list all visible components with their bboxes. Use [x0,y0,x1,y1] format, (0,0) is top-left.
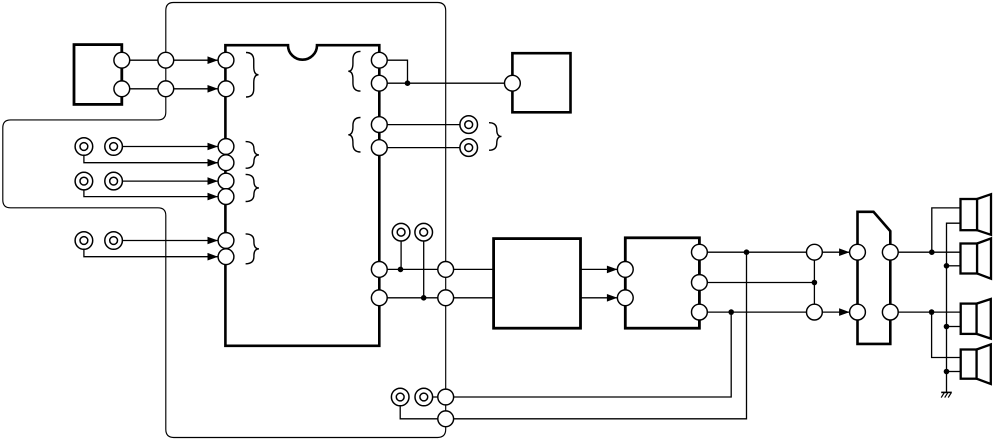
wire [379,268,493,270]
wire [122,59,218,61]
pin IC left 4 [218,155,234,171]
pin P2 unit [114,81,130,97]
jack J2 (RCA) [105,138,123,156]
arrowhead 8 [208,253,219,261]
pin IC left 8 [218,249,234,265]
pin boundary left 1 [158,52,174,68]
jack J3 (RCA) [75,172,93,190]
pin IC left 2 [218,81,234,97]
chassis outline (main unit boundary with left bulge) [3,3,446,438]
wire [424,396,446,398]
wire [581,268,618,270]
brace jacks out [489,123,502,151]
pin selector out 1 [882,244,898,260]
amplifier block A2 [625,238,699,328]
pin IC left 1 [218,52,234,68]
pin amp1 in 1 [617,262,633,278]
junction dot 6 [812,280,818,286]
wire [379,147,468,149]
wire [813,252,815,312]
jack J1 (RCA) [75,138,93,156]
pin boundary right 4 [438,411,454,427]
speaker SP1 [961,194,992,235]
wire [947,223,961,392]
jack J11 (RCA) [391,388,409,406]
junction dot 10 [944,324,950,330]
arrowhead 7 [208,237,219,245]
pin IC right 6 [371,290,387,306]
wire [947,326,961,328]
wire [114,180,218,182]
junction dot 2 [398,267,404,273]
wire [932,208,961,252]
pin P1 unit [114,52,130,68]
wire [699,311,849,313]
wire [699,282,814,284]
wire [890,251,960,253]
pin amp2 out 2 [692,275,708,291]
brace pins 5-6 [246,174,259,201]
wire [446,312,732,397]
pin boundary right 1 [438,262,454,278]
arrowhead 12 [839,308,850,316]
arrowhead 9 [607,266,618,274]
wire [84,147,218,163]
wire [114,240,218,242]
wire [947,265,961,267]
pin IC right 5 [371,262,387,278]
brace right pins 3-4 [348,118,360,153]
jack J4 (RCA) [105,172,123,190]
speaker SP3 [961,299,991,339]
ground [941,392,952,397]
wire [932,312,961,357]
arrowhead 2 [208,85,219,93]
pin IC right 4 [371,140,387,156]
junction dot 9 [944,263,950,269]
junction dot 3 [421,295,427,301]
pin IC left 3 [218,139,234,155]
pin boundary right 3 [438,389,454,405]
junction dot 7 [929,249,935,255]
pin IC right 2 [371,75,387,91]
arrowhead 5 [208,177,219,185]
jack J10 (RCA) [415,223,433,241]
pin boundary left 2 [158,81,174,97]
wire [947,371,961,373]
junction dot 4 [744,249,750,255]
brace right pins 1-2 [348,51,360,91]
arrowhead 3 [208,143,219,151]
arrowhead 11 [839,248,850,256]
amplifier block A1 [494,239,581,329]
jack J8 (RCA) [460,139,478,157]
jack J9 (RCA) [392,223,410,241]
pin IC right 1 [371,52,387,68]
junction dot 1 [405,80,411,86]
wire [400,397,446,419]
junction dot 8 [929,309,935,315]
speaker selector SW1 [858,212,891,344]
wire [379,60,407,83]
pin IC left 5 [218,173,234,189]
arrowhead 6 [208,193,219,201]
brace pins 1-2 [246,53,259,98]
pin IC left 6 [218,189,234,205]
wire [446,252,747,419]
speaker SP4 [961,344,991,384]
tuner unit block [74,45,122,105]
jack J12 (RCA) [415,388,433,406]
wire [699,251,849,253]
junction dot 11 [944,369,950,375]
wire [84,241,218,257]
arrowhead 10 [607,294,618,302]
wire [890,311,960,313]
pin boundary right 2 [438,290,454,306]
pin selector in 2 [850,304,866,320]
pin IC right 3 [371,117,387,133]
wire [400,232,402,269]
arrowhead 4 [208,159,219,167]
pin inline 1 [807,244,823,260]
wire [423,232,425,298]
wire [379,297,493,299]
arrowhead 1 [208,56,219,64]
wire [379,124,468,126]
pin inline 2 [807,304,823,320]
pin IC left 7 [218,233,234,249]
module U2 (aux block) [512,53,570,112]
wire [114,146,218,148]
speaker SP2 [961,238,992,278]
pin amp1 in 2 [617,290,633,306]
pin module U2 [505,75,521,91]
wire [122,88,218,90]
op-amp IC U1 (DIP outline with notch) [225,45,379,346]
pin amp2 out 1 [692,244,708,260]
junction dot 5 [728,309,734,315]
brace pins 7-8 [246,234,259,264]
brace pins 3-4 [246,142,259,169]
jack J5 (RCA) [75,232,93,250]
pin selector in 1 [850,244,866,260]
pin selector out 2 [882,304,898,320]
jack J6 (RCA) [105,232,123,250]
wire [379,82,512,84]
wire [84,181,218,197]
pin amp2 out 3 [692,304,708,320]
jack J7 (RCA) [460,116,478,134]
wire [581,297,618,299]
